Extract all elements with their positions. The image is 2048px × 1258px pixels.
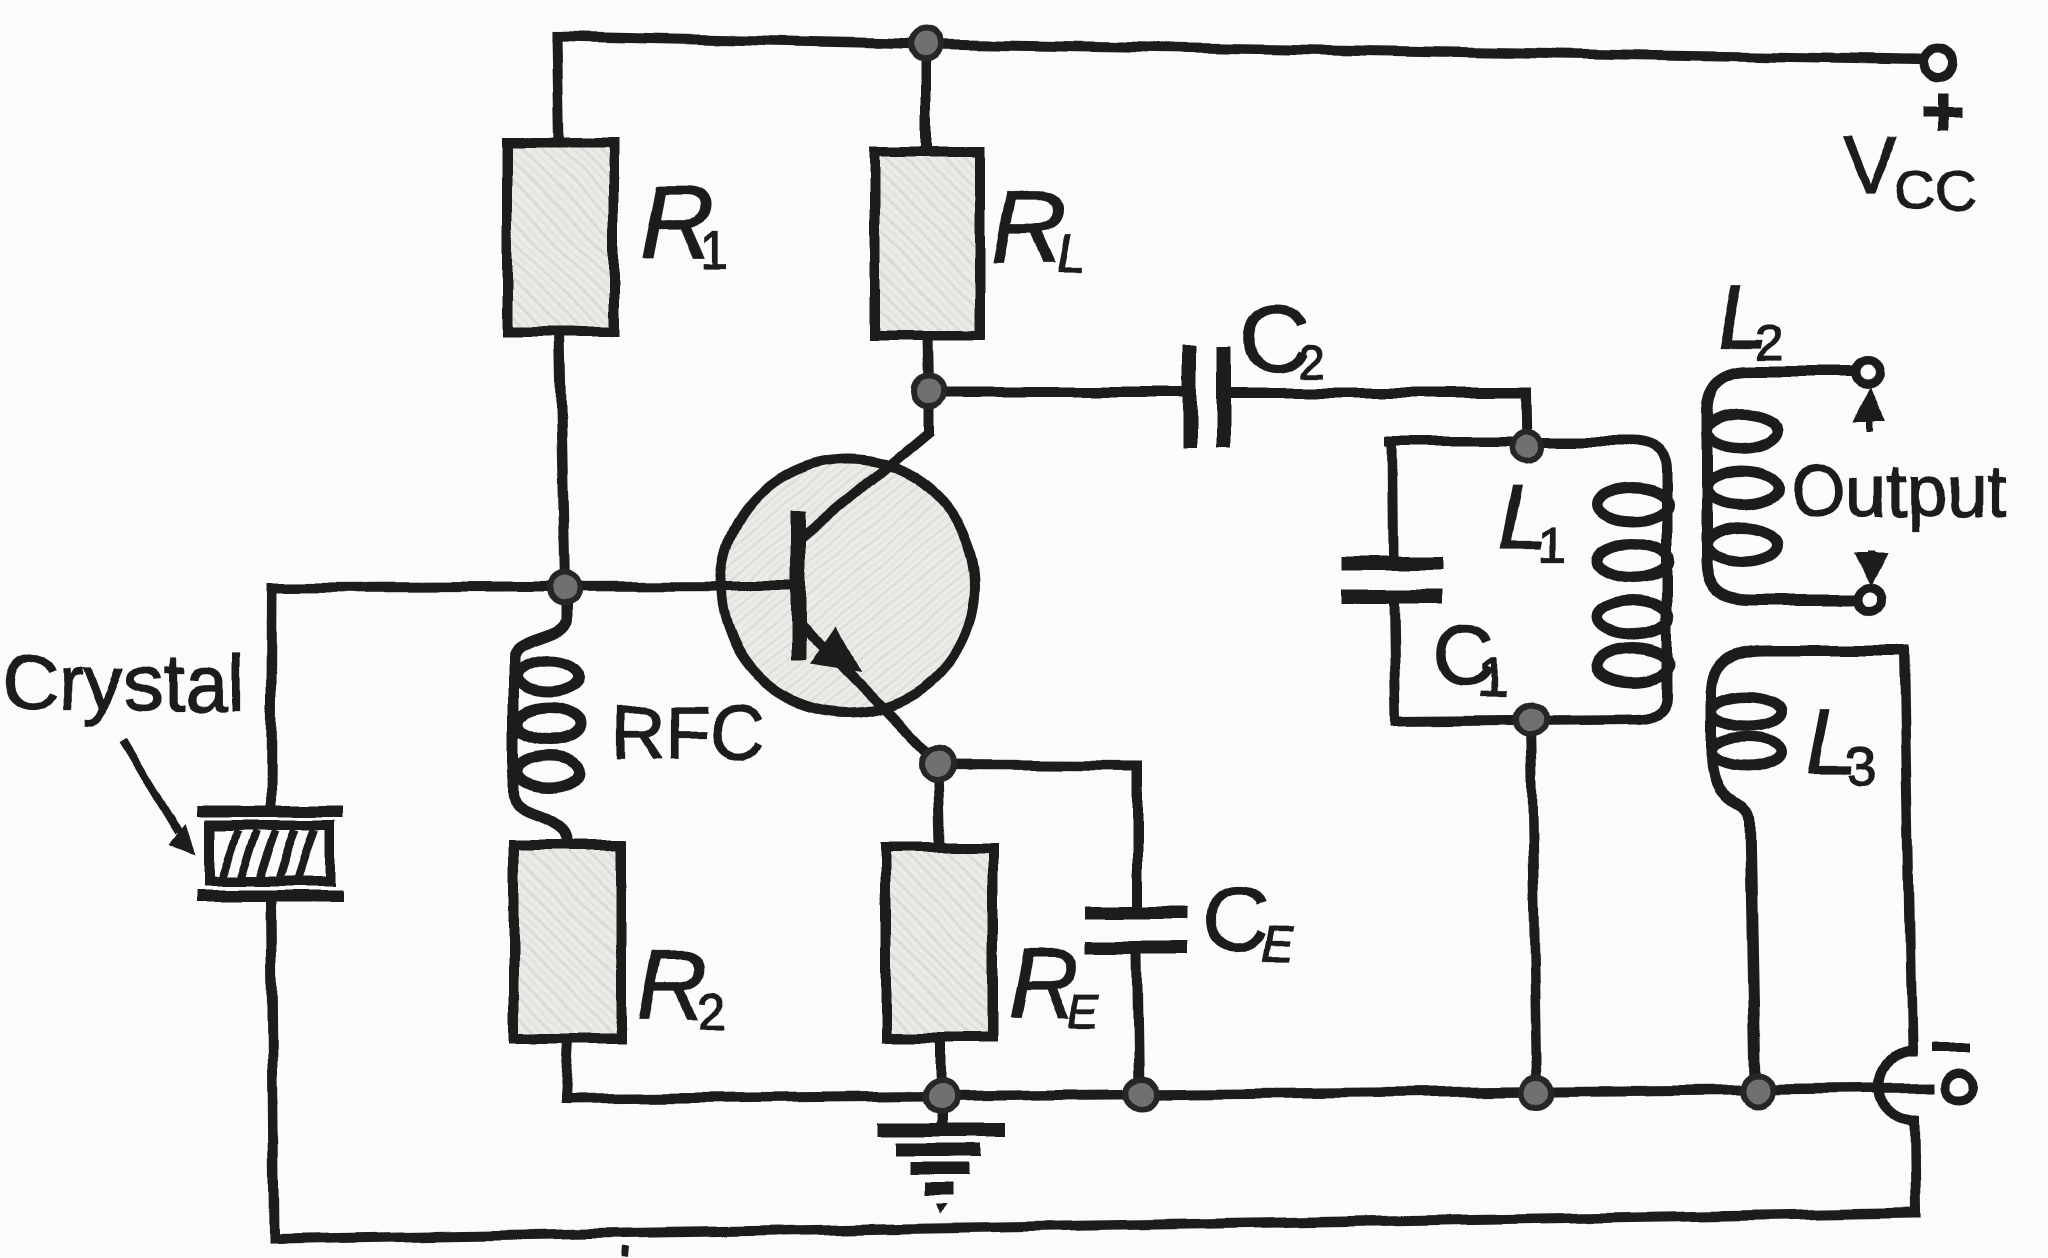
wire ground rail <box>565 1088 1930 1099</box>
label minus <box>1932 1044 1972 1053</box>
resistor RL <box>875 151 980 336</box>
terminal minus <box>1946 1073 1974 1101</box>
arrow output up <box>1859 396 1881 432</box>
inductor L3 <box>1711 650 1905 1087</box>
wire tank bottom node to ground rail <box>1531 719 1537 1092</box>
wire R1 bottom lead to base node <box>559 332 564 588</box>
wire emitter to RE <box>938 765 940 847</box>
page artifact mark <box>626 1247 627 1258</box>
arrow crystal pointer <box>124 740 196 855</box>
svg-text:3: 3 <box>1846 736 1876 796</box>
svg-text:2: 2 <box>1756 315 1784 371</box>
label plus <box>1923 93 1961 131</box>
wire base horizontal <box>272 586 798 587</box>
resistor R2 <box>514 845 621 1038</box>
wire R2 bottom lead <box>565 1038 568 1099</box>
wire tank top <box>1390 441 1667 721</box>
capacitor C2 <box>1189 346 1224 447</box>
svg-text:C: C <box>1202 868 1268 970</box>
svg-text:1: 1 <box>700 223 728 279</box>
inductor L2 <box>1706 372 1858 600</box>
capacitor C1 <box>1342 563 1442 597</box>
node collector <box>914 376 944 406</box>
ground <box>878 1130 1005 1189</box>
wire ground stub <box>936 1096 946 1124</box>
arrow output down <box>1860 551 1882 578</box>
node rail L3 <box>1743 1075 1773 1105</box>
transistor Q1 <box>700 391 975 764</box>
wire RL bottom lead to collector node <box>928 336 929 391</box>
svg-text:RFC: RFC <box>612 691 764 774</box>
resistor RE <box>886 847 993 1038</box>
svg-text:2: 2 <box>697 983 725 1039</box>
wire outer bottom return <box>274 1213 1915 1239</box>
svg-text:E: E <box>1262 918 1295 971</box>
node rail ground <box>925 1080 957 1112</box>
wire top supply rail <box>557 36 1921 59</box>
terminal output bottom <box>1858 588 1882 612</box>
wire C1 branch top <box>1392 441 1393 556</box>
svg-text:R: R <box>991 169 1066 285</box>
wire RE bottom lead <box>936 1038 946 1096</box>
wire CE bottom lead <box>1137 953 1139 1092</box>
svg-text:2: 2 <box>1298 336 1325 389</box>
svg-text:Output: Output <box>1790 452 2006 532</box>
node base <box>549 573 579 603</box>
node rail tank <box>1522 1077 1552 1107</box>
terminal output top <box>1856 361 1880 385</box>
wire left branch down to crystal <box>271 587 272 806</box>
inductor RFC <box>514 600 580 845</box>
svg-text:1: 1 <box>1538 517 1566 573</box>
node tank top <box>1512 431 1542 461</box>
wire C2 to tank top node <box>1231 393 1527 446</box>
node emitter <box>922 748 954 780</box>
resistor R1 <box>507 143 614 332</box>
wire right riser above hop to L3 top <box>1905 650 1912 1052</box>
svg-text:E: E <box>1067 986 1100 1039</box>
wire R1 top lead <box>557 36 559 143</box>
wire RL top lead <box>921 44 931 151</box>
wire collector node to C2 <box>929 387 1182 397</box>
wire emitter to CE <box>938 765 1137 906</box>
svg-text:Crystal: Crystal <box>2 639 245 727</box>
wire C1 branch bottom <box>1394 604 1396 721</box>
node tank bottom <box>1516 704 1546 734</box>
svg-text:L: L <box>1057 226 1086 284</box>
svg-text:CC: CC <box>1895 158 1976 221</box>
crystal XTAL <box>197 812 343 896</box>
capacitor CE <box>1085 912 1187 948</box>
node supply at RL <box>911 29 941 59</box>
inductor L1 <box>1597 487 1669 682</box>
wire crystal bottom to bottom-left corner <box>271 902 274 1239</box>
wire hop over ground rail <box>1879 1052 1914 1121</box>
terminal Vcc <box>1924 49 1952 77</box>
svg-text:V: V <box>1843 120 1898 211</box>
wire right riser below hop <box>1914 1121 1915 1213</box>
node rail CE <box>1126 1079 1156 1109</box>
svg-text:1: 1 <box>1477 645 1508 708</box>
